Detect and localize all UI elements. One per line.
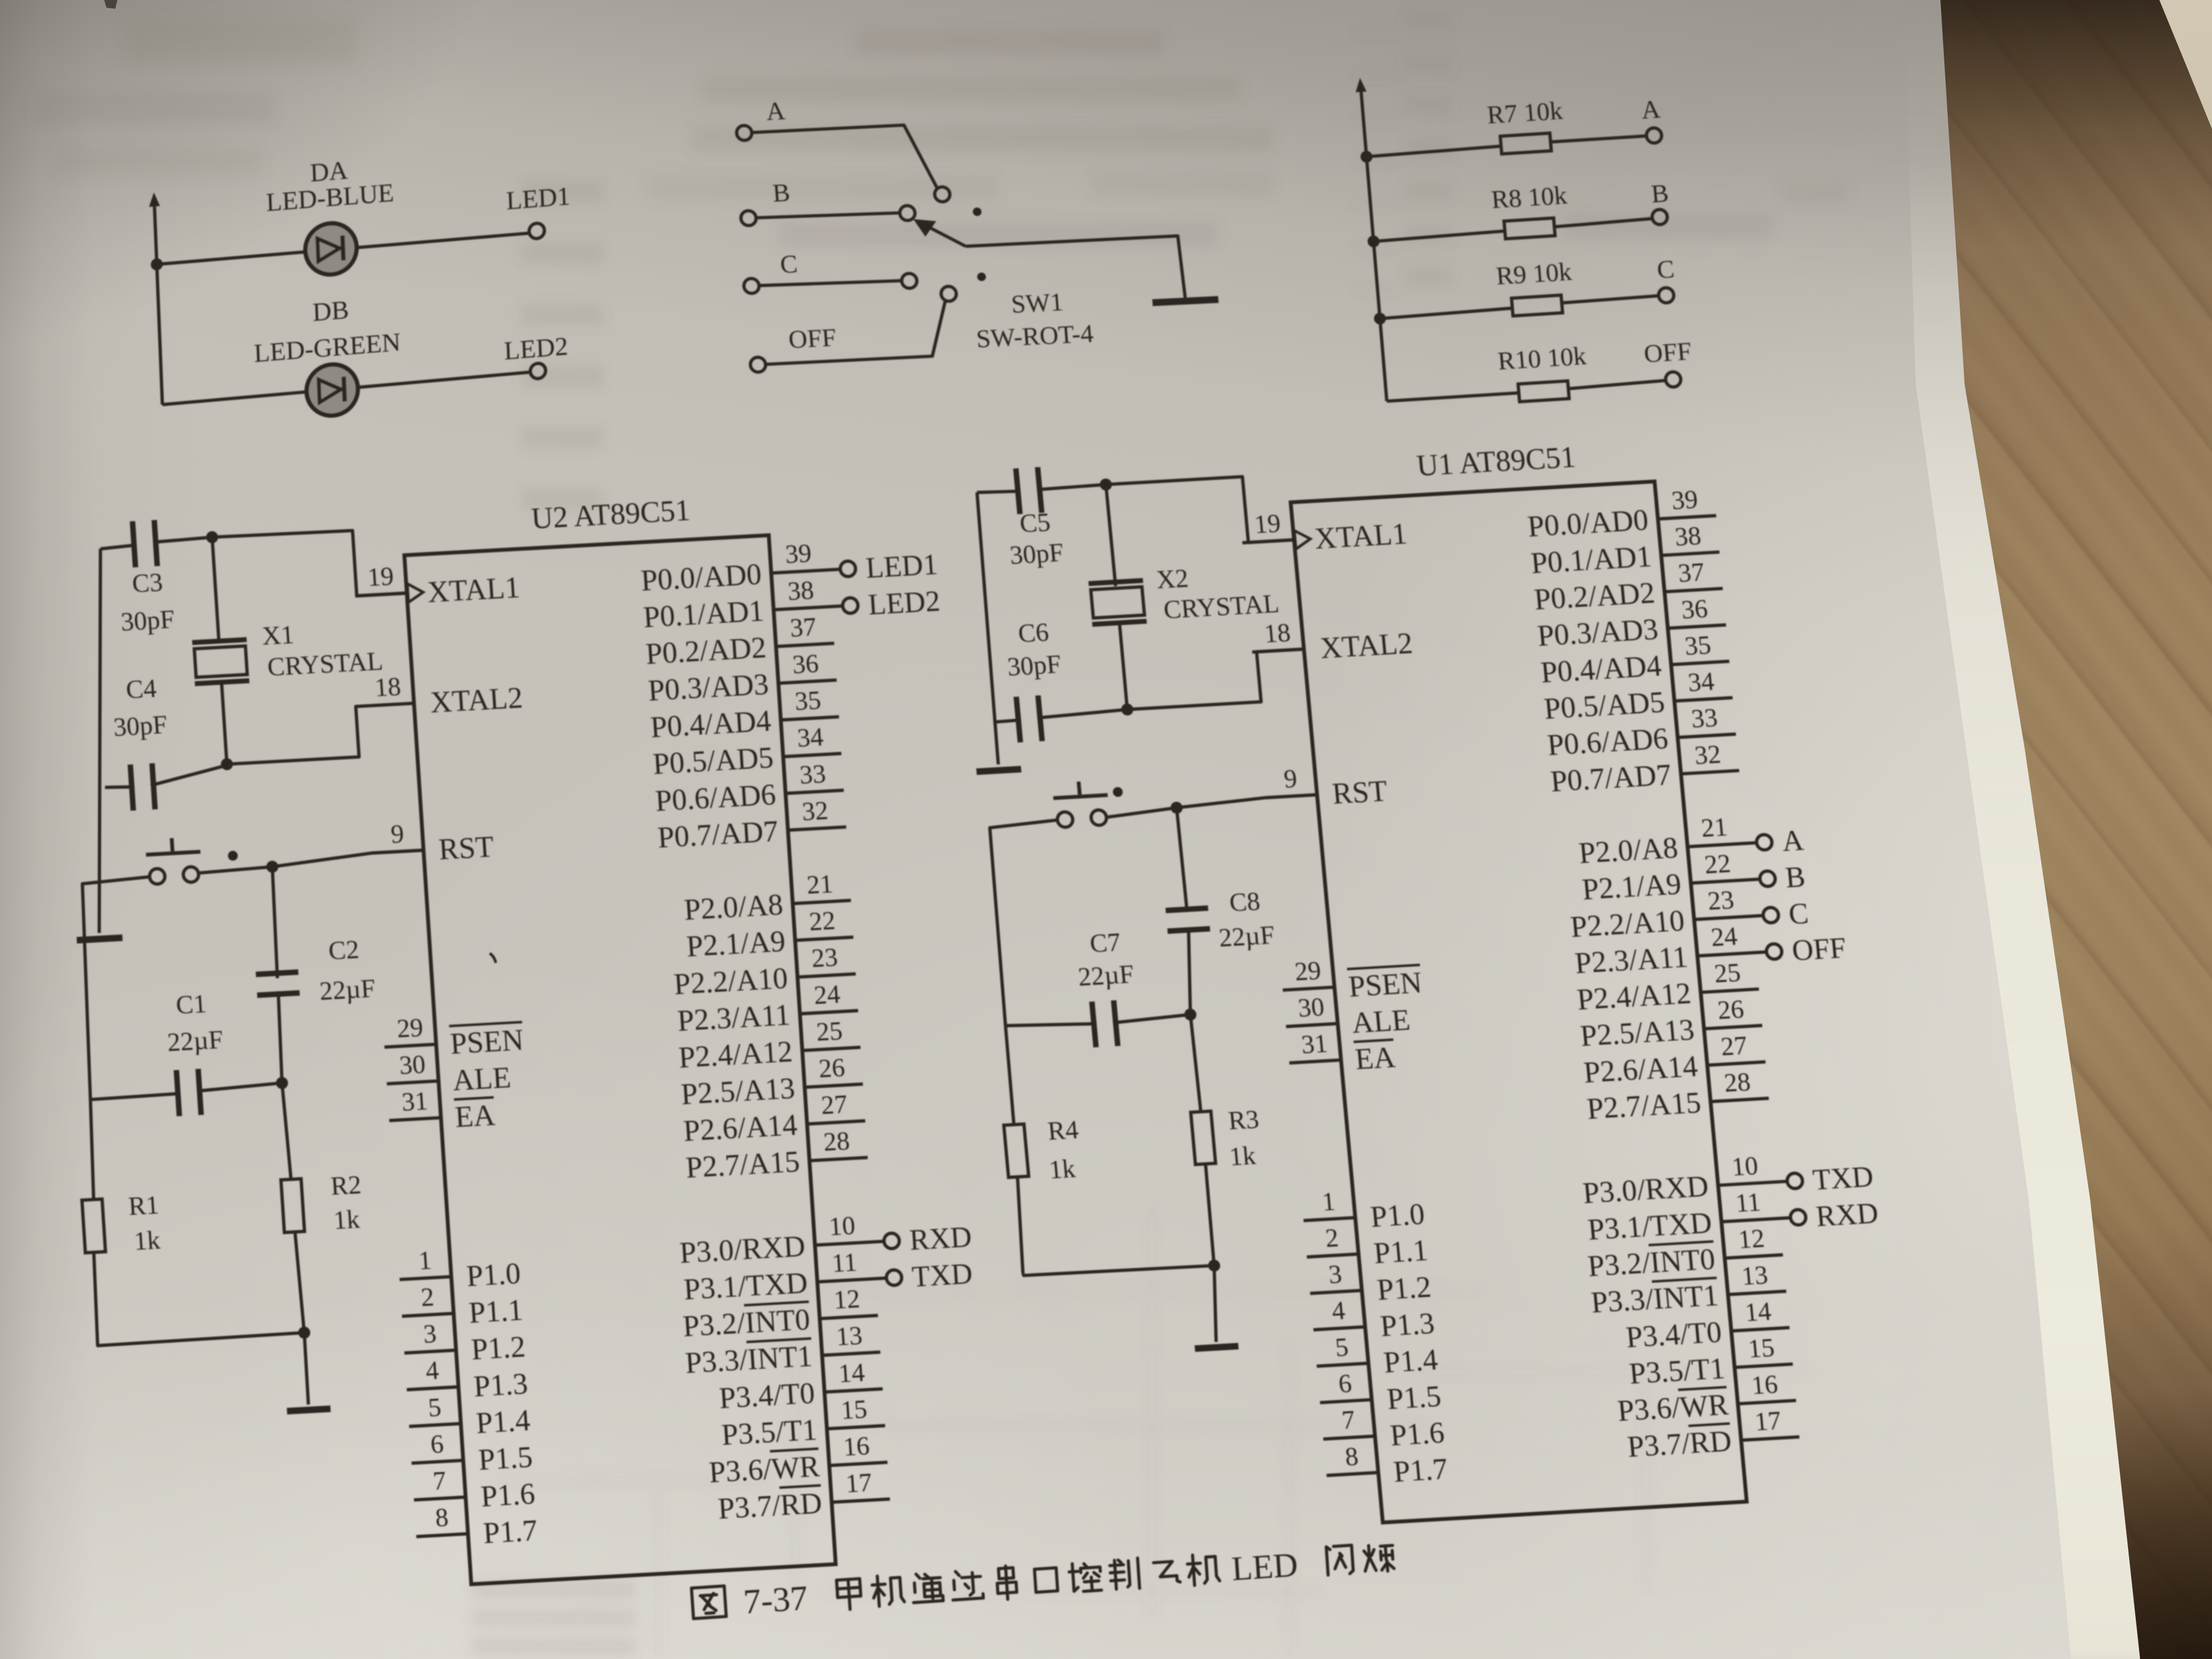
svg-text:XTAL1: XTAL1	[426, 570, 521, 608]
svg-text:1: 1	[417, 1245, 432, 1275]
pin 5 stub	[409, 1424, 461, 1426]
svg-text:P3.6/WR: P3.6/WR	[708, 1449, 821, 1489]
svg-text:1: 1	[1321, 1187, 1337, 1216]
svg-text:10: 10	[828, 1211, 856, 1242]
svg-text:P1.6: P1.6	[479, 1476, 535, 1513]
wire: button left to rail	[76, 877, 164, 1099]
svg-text:P3.7/RD: P3.7/RD	[717, 1486, 823, 1526]
resistor R10 10k	[1387, 393, 1519, 401]
pin 7 stub	[1323, 1436, 1375, 1439]
svg-text:P0.4/AD4: P0.4/AD4	[650, 704, 772, 744]
svg-text:P0.0/AD0: P0.0/AD0	[640, 557, 763, 597]
capacitor C4 30pF	[105, 786, 134, 788]
svg-text:P3.7/RD: P3.7/RD	[1626, 1424, 1733, 1464]
wire: button to RST	[197, 850, 425, 873]
svg-text:32: 32	[1694, 740, 1722, 770]
svg-text:35: 35	[794, 686, 822, 716]
svg-text:B: B	[771, 179, 791, 208]
svg-text:P0.6/AD6: P0.6/AD6	[654, 777, 777, 817]
pin 37 stub / label P0.2/AD2	[1664, 589, 1723, 592]
pin 36 stub / label P0.3/AD3	[778, 680, 837, 684]
svg-text:9: 9	[390, 819, 405, 849]
svg-text:C5: C5	[1018, 507, 1051, 538]
svg-text:P3.4/T0: P3.4/T0	[1624, 1315, 1723, 1354]
svg-text:P0.5/AD5: P0.5/AD5	[1543, 685, 1666, 725]
svg-text:22µF: 22µF	[319, 974, 376, 1006]
pin 32 stub / label P0.7/AD7	[788, 827, 846, 830]
svg-text:C: C	[1787, 896, 1810, 930]
svg-text:30pF: 30pF	[1006, 650, 1063, 681]
svg-text:38: 38	[1674, 521, 1702, 552]
svg-text:PSEN: PSEN	[449, 1023, 524, 1060]
switch contact OFF	[941, 286, 957, 301]
svg-text:8: 8	[1344, 1442, 1360, 1471]
svg-text:39: 39	[785, 539, 812, 569]
svg-text:P2.2/A10: P2.2/A10	[1569, 904, 1686, 944]
pin 3 stub	[404, 1350, 456, 1353]
pin 35 stub / label P0.4/AD4	[1671, 661, 1729, 664]
svg-text:11: 11	[1734, 1188, 1762, 1218]
svg-text:P2.2/A10: P2.2/A10	[673, 961, 788, 1001]
svg-text:LED-GREEN: LED-GREEN	[253, 328, 401, 368]
pin 25 stub / label P2.4/A12	[1701, 989, 1759, 992]
pin 34 stub / label P0.5/AD5	[1674, 698, 1733, 701]
node: C3/X1 junction	[206, 531, 218, 544]
wire: R4 bottom to junction	[1023, 1262, 1215, 1277]
pin 14 stub / label P3.4/T0	[1731, 1328, 1790, 1331]
pin 12 stub / label P3.2/INT0	[1725, 1255, 1783, 1258]
svg-text:X1: X1	[261, 620, 295, 651]
pin 26 stub / label P2.5/A13	[805, 1084, 863, 1087]
capacitor C6 30pF	[996, 720, 1022, 722]
pin 38 stub / label P0.1/AD1	[1661, 552, 1719, 555]
node: button/C2 junction	[266, 860, 279, 873]
svg-text:2: 2	[1324, 1223, 1340, 1253]
pin 3 stub	[1310, 1290, 1362, 1293]
svg-text:P1.1: P1.1	[1372, 1233, 1429, 1269]
svg-text:11: 11	[831, 1248, 858, 1278]
svg-text:29: 29	[396, 1013, 424, 1043]
pin 11 stub / label P3.1/TXD	[817, 1278, 887, 1282]
svg-text:25: 25	[815, 1016, 843, 1047]
wire: XTAL2 jog (U1)	[1123, 649, 1308, 709]
svg-text:24: 24	[1710, 922, 1739, 952]
svg-text:P1.7: P1.7	[482, 1513, 538, 1550]
svg-text:19: 19	[1253, 509, 1282, 539]
svg-text:32: 32	[801, 796, 829, 827]
resistor R4 1k	[1005, 1026, 1014, 1125]
pin 29 stub	[385, 1044, 436, 1047]
svg-text:RXD: RXD	[909, 1220, 973, 1256]
node: X1 bottom junction	[221, 758, 233, 770]
node: C5/X2 junction	[1099, 478, 1113, 491]
svg-text:X2: X2	[1155, 563, 1190, 594]
svg-text:P1.6: P1.6	[1389, 1415, 1446, 1452]
detent dot (U1 button)	[1113, 787, 1123, 797]
crystal X1	[212, 537, 219, 640]
detent dot (U2 button)	[228, 850, 238, 861]
terminal C (ladder)	[1658, 287, 1674, 303]
pin 7 stub	[414, 1497, 466, 1500]
svg-text:37: 37	[789, 612, 817, 643]
svg-text:1k: 1k	[1048, 1154, 1076, 1185]
svg-text:7-37: 7-37	[742, 1578, 809, 1622]
svg-text:1k: 1k	[1228, 1141, 1257, 1172]
svg-text:10: 10	[1730, 1151, 1759, 1182]
pin 1 stub	[1304, 1217, 1355, 1220]
pin 18 stub	[362, 703, 414, 706]
capacitor C1 22uF	[91, 1094, 178, 1100]
pin 39 stub / label P0.0/AD0	[1658, 516, 1716, 519]
pin 11 stub / label P3.1/TXD	[1722, 1218, 1791, 1222]
svg-text:P2.7/A15: P2.7/A15	[685, 1144, 800, 1184]
svg-text:14: 14	[838, 1358, 866, 1389]
svg-text:P3.3/INT1: P3.3/INT1	[1589, 1278, 1719, 1319]
svg-text:P1.7: P1.7	[1392, 1452, 1449, 1488]
resistor R3 1k	[1190, 1014, 1201, 1112]
svg-text:B: B	[1784, 860, 1807, 894]
terminal LED1	[529, 223, 545, 239]
svg-text:ALE: ALE	[1350, 1003, 1411, 1040]
pin 6 stub	[411, 1460, 463, 1463]
pin 23 stub / label P2.2/A10	[1694, 916, 1764, 919]
pin 21 stub / label P2.0/A8	[1688, 843, 1757, 847]
svg-text:3: 3	[422, 1319, 437, 1348]
wire: junction to ground (U1)	[1209, 1266, 1221, 1342]
svg-text:LED2: LED2	[867, 584, 941, 621]
svg-text:27: 27	[820, 1090, 848, 1120]
svg-text:22: 22	[1703, 849, 1732, 879]
pin 39 stub / label P0.0/AD0	[771, 569, 841, 573]
svg-text:C: C	[779, 250, 798, 279]
wire: C to contact	[759, 279, 902, 288]
svg-text:27: 27	[1720, 1031, 1748, 1062]
svg-text:30: 30	[1297, 992, 1325, 1023]
terminal A (ladder)	[1646, 127, 1662, 143]
svg-text:26: 26	[1717, 995, 1745, 1025]
svg-text:17: 17	[1753, 1406, 1782, 1437]
pin 14 stub / label P3.4/T0	[825, 1389, 883, 1392]
pin 17 stub / label P3.7/RD	[1741, 1437, 1799, 1440]
svg-text:R8 10k: R8 10k	[1490, 181, 1568, 214]
svg-text:P1.2: P1.2	[470, 1330, 526, 1367]
svg-text:P3.1/TXD: P3.1/TXD	[682, 1266, 809, 1306]
svg-text:22µF: 22µF	[1217, 921, 1276, 953]
pin 18 stub	[1252, 649, 1304, 652]
pin 2 stub	[1307, 1254, 1358, 1257]
capacitor C2 22uF	[270, 867, 279, 978]
wire: R1 bottom to junction	[98, 1333, 304, 1346]
svg-text:1k: 1k	[332, 1204, 360, 1235]
svg-text:B: B	[1650, 179, 1670, 208]
svg-text:P3.2/INT0: P3.2/INT0	[1586, 1242, 1716, 1283]
svg-text:35: 35	[1684, 630, 1712, 661]
pin 38 stub / label P0.1/AD1	[774, 606, 843, 610]
svg-text:C2: C2	[328, 935, 360, 966]
svg-text:CRYSTAL: CRYSTAL	[267, 646, 384, 682]
crystal X2	[1106, 484, 1116, 586]
terminal B (switch)	[741, 210, 757, 225]
push button (U2 reset)	[149, 868, 166, 885]
svg-text:22: 22	[808, 906, 836, 936]
pin 6 stub	[1320, 1400, 1372, 1402]
svg-text:P0.2/AD2: P0.2/AD2	[1533, 575, 1656, 616]
svg-text:33: 33	[799, 759, 827, 790]
node: C7/C8/R3 junction	[1184, 1008, 1197, 1021]
svg-text:OFF: OFF	[788, 324, 838, 354]
svg-text:29: 29	[1294, 956, 1322, 986]
svg-text:P2.4/A12: P2.4/A12	[678, 1034, 793, 1074]
terminal OFF (switch)	[750, 357, 766, 373]
svg-text:4: 4	[1331, 1296, 1347, 1325]
svg-text:P0.6/AD6: P0.6/AD6	[1546, 721, 1669, 761]
wire: left rail to ground (U2 osc)	[74, 549, 125, 933]
wire: button left to rail (U1)	[988, 820, 1076, 1026]
svg-text:P1.5: P1.5	[1385, 1379, 1442, 1415]
svg-text:P0.2/AD2: P0.2/AD2	[645, 630, 768, 670]
svg-text:30pF: 30pF	[1008, 538, 1065, 570]
pin 26 stub / label P2.5/A13	[1704, 1025, 1762, 1029]
pin 24 stub / label P2.3/A11	[800, 1011, 858, 1014]
svg-text:12: 12	[1737, 1224, 1765, 1255]
svg-text:R2: R2	[330, 1170, 362, 1201]
terminal LED2	[530, 363, 546, 379]
pin 16 stub / label P3.6/WR	[1738, 1401, 1796, 1404]
svg-text:RST: RST	[438, 830, 495, 866]
svg-text:30pF: 30pF	[112, 710, 168, 742]
wire: top wire to pin 19	[212, 527, 407, 603]
svg-text:OFF: OFF	[1791, 931, 1848, 967]
svg-text:P1.4: P1.4	[1382, 1342, 1439, 1379]
svg-text:C: C	[1656, 255, 1675, 284]
svg-text:P3.0/RXD: P3.0/RXD	[679, 1229, 806, 1269]
svg-text:A: A	[765, 97, 786, 126]
svg-text:EA: EA	[1353, 1040, 1397, 1076]
svg-text:C6: C6	[1017, 618, 1050, 648]
pin 35 stub / label P0.4/AD4	[781, 717, 839, 720]
svg-text:P2.0/A8: P2.0/A8	[1577, 831, 1679, 870]
svg-text:1k: 1k	[133, 1225, 161, 1256]
svg-text:OFF: OFF	[1643, 337, 1693, 369]
svg-text:23: 23	[811, 943, 839, 973]
svg-text:EA: EA	[454, 1098, 496, 1133]
pin 30 stub	[1286, 1024, 1338, 1026]
switch contact C	[901, 273, 918, 289]
pin 4 stub	[1313, 1327, 1365, 1330]
svg-text:DB: DB	[312, 296, 349, 327]
svg-text:25: 25	[1713, 958, 1742, 989]
svg-text:P3.5/T1: P3.5/T1	[720, 1413, 818, 1452]
ground (U1 osc rail)	[976, 766, 1021, 775]
svg-text:P2.1/A9: P2.1/A9	[1581, 867, 1683, 906]
ground (U2 reset)	[287, 1406, 331, 1414]
pin 19 stub	[355, 593, 407, 596]
svg-text:2: 2	[420, 1282, 435, 1312]
pin 32 stub / label P0.7/AD7	[1681, 771, 1739, 774]
switch SW1 selector arm	[924, 223, 966, 249]
pin 13 stub / label P3.3/INT1	[1728, 1291, 1786, 1295]
node: button/C8 junction	[1170, 802, 1183, 814]
svg-text:21: 21	[1700, 812, 1729, 843]
svg-text:R1: R1	[127, 1190, 160, 1221]
svg-text:XTAL2: XTAL2	[1319, 626, 1414, 664]
pin 13 stub / label P3.3/INT1	[822, 1352, 881, 1356]
node: C1/C2/R2 junction	[275, 1076, 288, 1089]
pin 33 stub / label P0.6/AD6	[786, 790, 844, 793]
resistor R7 10k	[1367, 146, 1502, 156]
pin 37 stub / label P0.2/AD2	[776, 644, 834, 647]
svg-text:P1.0: P1.0	[1369, 1197, 1426, 1233]
pin 28 stub / label P2.7/A15	[1711, 1098, 1769, 1102]
svg-text:ALE: ALE	[452, 1060, 512, 1097]
svg-text:XTAL2: XTAL2	[429, 680, 523, 719]
svg-text:R10 10k: R10 10k	[1497, 342, 1588, 376]
top edge cropped glyph	[104, 0, 117, 9]
svg-text:7: 7	[1341, 1405, 1357, 1435]
pin 8 stub	[1327, 1472, 1378, 1475]
svg-text:8: 8	[435, 1503, 449, 1532]
svg-text:P0.0/AD0: P0.0/AD0	[1526, 503, 1650, 543]
svg-text:15: 15	[1747, 1333, 1775, 1364]
svg-text:30: 30	[398, 1049, 426, 1080]
wire: left rail (U1 osc)	[974, 493, 1002, 765]
pin 22 stub / label P2.1/A9	[795, 937, 853, 940]
node: bus junction B	[1367, 235, 1380, 248]
svg-text:13: 13	[835, 1321, 863, 1352]
svg-text:P2.1/A9: P2.1/A9	[685, 924, 786, 963]
svg-text:RXD: RXD	[1815, 1197, 1880, 1233]
pin 15 stub / label P3.5/T1	[1735, 1364, 1793, 1367]
svg-text:P2.3/A11: P2.3/A11	[676, 997, 791, 1037]
svg-text:TXD: TXD	[1812, 1160, 1875, 1196]
capacitor C3 30pF	[100, 545, 133, 549]
terminal C (switch)	[743, 278, 760, 294]
IC U1 AT89C51	[1291, 482, 1747, 1523]
svg-text:19: 19	[366, 562, 394, 592]
svg-text:P2.5/A13: P2.5/A13	[1579, 1013, 1696, 1053]
push button (U1 reset)	[1057, 811, 1073, 827]
svg-text:P0.7/AD7: P0.7/AD7	[657, 814, 780, 854]
svg-text:P3.5/T1: P3.5/T1	[1628, 1351, 1726, 1390]
svg-text:18: 18	[374, 672, 402, 703]
LED DB (LED-GREEN)	[306, 363, 359, 417]
svg-text:22µF: 22µF	[1077, 960, 1135, 992]
svg-text:XTAL1: XTAL1	[1313, 517, 1409, 555]
wire: top wire to pin 19 (U1)	[1106, 474, 1294, 550]
resistor R1 1k	[87, 1099, 97, 1199]
svg-text:28: 28	[1723, 1068, 1752, 1098]
svg-text:34: 34	[1687, 667, 1716, 697]
node: bus junction A	[1360, 150, 1373, 163]
svg-text:SW1: SW1	[1010, 288, 1064, 319]
svg-text:28: 28	[822, 1126, 850, 1157]
svg-text:6: 6	[1338, 1369, 1353, 1398]
svg-text:P3.3/INT1: P3.3/INT1	[684, 1339, 814, 1380]
pin 12 stub / label P3.2/INT0	[820, 1316, 878, 1319]
svg-text:26: 26	[818, 1053, 846, 1084]
svg-text:P2.0/A8: P2.0/A8	[683, 888, 784, 927]
svg-text:6: 6	[430, 1429, 444, 1459]
svg-text:P1.4: P1.4	[475, 1403, 531, 1440]
svg-text:P2.3/A11: P2.3/A11	[1573, 940, 1689, 980]
wire: B to contact	[755, 211, 900, 220]
svg-text:P0.7/AD7: P0.7/AD7	[1549, 758, 1673, 798]
svg-text:LED: LED	[1231, 1547, 1299, 1588]
wire: DA anode wire to LED1	[157, 233, 530, 264]
resistor R2 1k	[282, 1083, 291, 1180]
svg-text:P3.4/T0: P3.4/T0	[718, 1376, 816, 1415]
capacitor C5 30pF	[977, 490, 1017, 494]
pin 1 stub	[399, 1277, 451, 1279]
svg-text:14: 14	[1743, 1297, 1772, 1328]
svg-text:31: 31	[401, 1086, 429, 1117]
svg-text:21: 21	[806, 869, 834, 900]
svg-text:33: 33	[1690, 703, 1719, 734]
svg-text:A: A	[1640, 95, 1661, 125]
pin 21 stub / label P2.0/A8	[793, 900, 851, 904]
pin 23 stub / label P2.2/A10	[798, 974, 856, 977]
pin 29 stub	[1283, 987, 1334, 990]
pin 36 stub / label P0.3/AD3	[1668, 625, 1726, 628]
node: bus junction C	[1374, 312, 1386, 325]
wire: junction to ground	[304, 1333, 309, 1404]
svg-text:4: 4	[425, 1356, 439, 1385]
resistor R9 10k	[1380, 308, 1513, 319]
svg-text:P1.5: P1.5	[477, 1440, 533, 1476]
svg-text:P0.3/AD3: P0.3/AD3	[647, 667, 770, 707]
node: LED rail junction	[150, 258, 163, 270]
svg-text:P1.2: P1.2	[1375, 1270, 1432, 1306]
svg-text:C4: C4	[125, 674, 157, 704]
wire: OFF to contact	[761, 300, 950, 364]
detent dot lower	[977, 272, 986, 281]
svg-text:22µF: 22µF	[166, 1025, 224, 1057]
svg-text:C1: C1	[175, 989, 207, 1020]
stray mark	[490, 953, 496, 963]
svg-text:LED1: LED1	[506, 182, 571, 216]
svg-text:23: 23	[1707, 885, 1735, 916]
switch contact B	[899, 205, 916, 221]
pin 34 stub / label P0.5/AD5	[783, 753, 842, 757]
node: R3/R4 junction	[1207, 1259, 1221, 1272]
pin 9 stub	[372, 850, 424, 853]
LED DA (LED-BLUE)	[304, 222, 358, 276]
svg-text:P1.3: P1.3	[1379, 1306, 1436, 1342]
svg-text:R4: R4	[1047, 1115, 1080, 1146]
pin 27 stub / label P2.6/A14	[1707, 1062, 1765, 1065]
pin 8 stub	[416, 1534, 468, 1537]
svg-text:P0.1/AD1: P0.1/AD1	[642, 594, 765, 634]
svg-text:P2.6/A14: P2.6/A14	[1582, 1049, 1699, 1089]
pin 19 stub	[1243, 540, 1294, 543]
wire: DB wire to LED2	[162, 372, 531, 404]
svg-text:31: 31	[1300, 1029, 1329, 1059]
svg-text:39: 39	[1671, 485, 1699, 516]
svg-text:30pF: 30pF	[120, 605, 176, 636]
svg-text:18: 18	[1263, 618, 1291, 648]
svg-text:C8: C8	[1228, 887, 1261, 917]
ground (switch)	[1152, 296, 1218, 306]
svg-text:C3: C3	[131, 568, 163, 599]
svg-text:LED2: LED2	[504, 332, 568, 365]
terminal OFF (ladder)	[1665, 371, 1681, 387]
pin 9 stub	[1266, 795, 1317, 798]
wire: VCC bus (resistor ladder)	[1359, 88, 1363, 92]
node: X2 bottom junction	[1121, 703, 1134, 716]
svg-text:R9 10k: R9 10k	[1495, 257, 1573, 290]
svg-text:LED1: LED1	[865, 548, 939, 584]
wire: XTAL2 jog (U2)	[224, 703, 417, 764]
